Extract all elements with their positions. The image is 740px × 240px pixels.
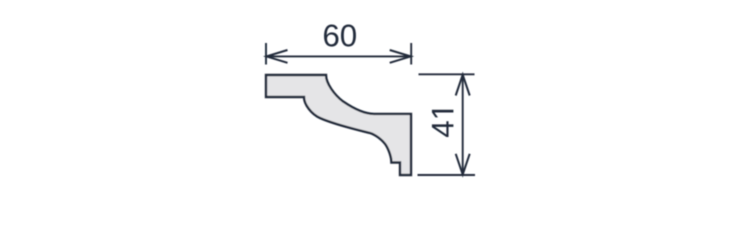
digit 1 [432, 110, 453, 118]
extension line bottom of height dimension [418, 174, 476, 176]
width arrow left [267, 50, 288, 63]
extension line top of height dimension [419, 73, 475, 75]
height label 41 (rotated) [432, 110, 453, 137]
height arrow top [456, 75, 470, 96]
height dimension line [462, 74, 464, 175]
height arrow bottom [456, 154, 470, 175]
width label 60 digit 0 [341, 25, 356, 47]
molding profile cross-section [266, 75, 411, 175]
width dimension line [266, 55, 411, 57]
digit 4 [432, 121, 453, 137]
extension tick right of width dimension [410, 43, 412, 65]
width arrow right [390, 50, 411, 63]
width label 60 digit 6 [324, 25, 338, 47]
extension tick left of width dimension [265, 43, 267, 65]
